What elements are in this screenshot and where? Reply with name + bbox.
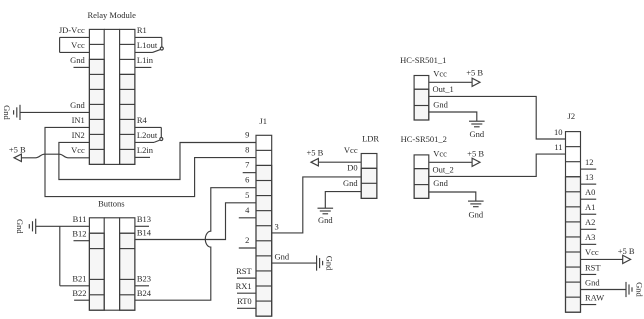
- svg-text:8: 8: [245, 145, 249, 155]
- svg-text:L1out: L1out: [137, 40, 158, 50]
- svg-text:R4: R4: [137, 115, 148, 125]
- svg-text:+5 B: +5 B: [9, 144, 26, 154]
- svg-text:RT0: RT0: [237, 296, 252, 306]
- svg-text:RAW: RAW: [585, 292, 604, 302]
- svg-text:3: 3: [275, 221, 279, 231]
- svg-text:RX1: RX1: [236, 281, 252, 291]
- svg-text:B12: B12: [72, 229, 86, 239]
- svg-text:Vcc: Vcc: [71, 40, 85, 50]
- svg-text:10: 10: [554, 127, 563, 137]
- svg-text:Relay Module: Relay Module: [87, 10, 136, 20]
- svg-text:Gnd: Gnd: [70, 55, 85, 65]
- svg-text:L2out: L2out: [137, 130, 158, 140]
- svg-text:Gnd: Gnd: [325, 256, 335, 271]
- svg-text:L2in: L2in: [137, 145, 154, 155]
- svg-text:HC-SR501_1: HC-SR501_1: [400, 55, 446, 65]
- svg-text:+5 B: +5 B: [306, 148, 323, 158]
- svg-text:Gnd: Gnd: [275, 252, 290, 262]
- svg-text:+5 B: +5 B: [618, 246, 635, 256]
- svg-text:5: 5: [245, 190, 249, 200]
- svg-text:B14: B14: [137, 228, 152, 238]
- svg-text:Gnd: Gnd: [318, 215, 333, 225]
- svg-text:4: 4: [245, 205, 250, 215]
- svg-text:A1: A1: [585, 202, 595, 212]
- svg-text:B23: B23: [137, 273, 151, 283]
- svg-text:D0: D0: [347, 163, 357, 173]
- svg-text:13: 13: [585, 172, 594, 182]
- svg-text:Gnd: Gnd: [585, 277, 600, 287]
- svg-text:A3: A3: [585, 232, 595, 242]
- svg-text:RST: RST: [236, 266, 252, 276]
- svg-text:Out_1: Out_1: [433, 84, 454, 94]
- svg-text:B13: B13: [137, 214, 151, 224]
- svg-text:Gnd: Gnd: [433, 100, 448, 110]
- svg-text:B24: B24: [137, 288, 152, 298]
- svg-text:IN1: IN1: [72, 115, 85, 125]
- svg-text:12: 12: [585, 157, 594, 167]
- svg-text:J1: J1: [259, 116, 267, 126]
- svg-text:Vcc: Vcc: [71, 145, 85, 155]
- svg-text:A2: A2: [585, 217, 595, 227]
- svg-text:B11: B11: [73, 214, 87, 224]
- svg-text:Vcc: Vcc: [344, 145, 358, 155]
- svg-text:Gnd: Gnd: [634, 282, 644, 297]
- svg-text:Out_2: Out_2: [433, 164, 454, 174]
- svg-text:Gnd: Gnd: [2, 105, 12, 120]
- svg-text:L1in: L1in: [137, 55, 154, 65]
- svg-text:Gnd: Gnd: [343, 178, 358, 188]
- svg-text:Vcc: Vcc: [433, 148, 447, 158]
- svg-text:Vcc: Vcc: [585, 247, 599, 257]
- svg-text:LDR: LDR: [362, 134, 379, 144]
- svg-text:IN2: IN2: [72, 130, 85, 140]
- svg-text:J2: J2: [568, 111, 576, 121]
- svg-text:A0: A0: [585, 187, 595, 197]
- svg-text:6: 6: [245, 175, 249, 185]
- svg-text:+5 B: +5 B: [466, 68, 483, 78]
- svg-text:7: 7: [245, 160, 249, 170]
- svg-text:B21: B21: [72, 273, 86, 283]
- svg-text:HC-SR501_2: HC-SR501_2: [401, 134, 447, 144]
- svg-text:JD-Vcc: JD-Vcc: [59, 25, 85, 35]
- svg-text:9: 9: [245, 130, 249, 140]
- svg-text:Gnd: Gnd: [469, 129, 484, 139]
- svg-text:Buttons: Buttons: [98, 199, 124, 209]
- svg-text:2: 2: [245, 235, 249, 245]
- svg-text:Gnd: Gnd: [468, 210, 483, 220]
- svg-text:Gnd: Gnd: [15, 219, 25, 234]
- svg-text:11: 11: [554, 142, 562, 152]
- svg-text:B22: B22: [72, 288, 86, 298]
- svg-text:R1: R1: [137, 25, 147, 35]
- svg-text:+5 B: +5 B: [467, 148, 484, 158]
- svg-text:Gnd: Gnd: [433, 178, 448, 188]
- svg-text:RST: RST: [585, 262, 601, 272]
- svg-text:Gnd: Gnd: [70, 100, 85, 110]
- svg-text:Vcc: Vcc: [433, 68, 447, 78]
